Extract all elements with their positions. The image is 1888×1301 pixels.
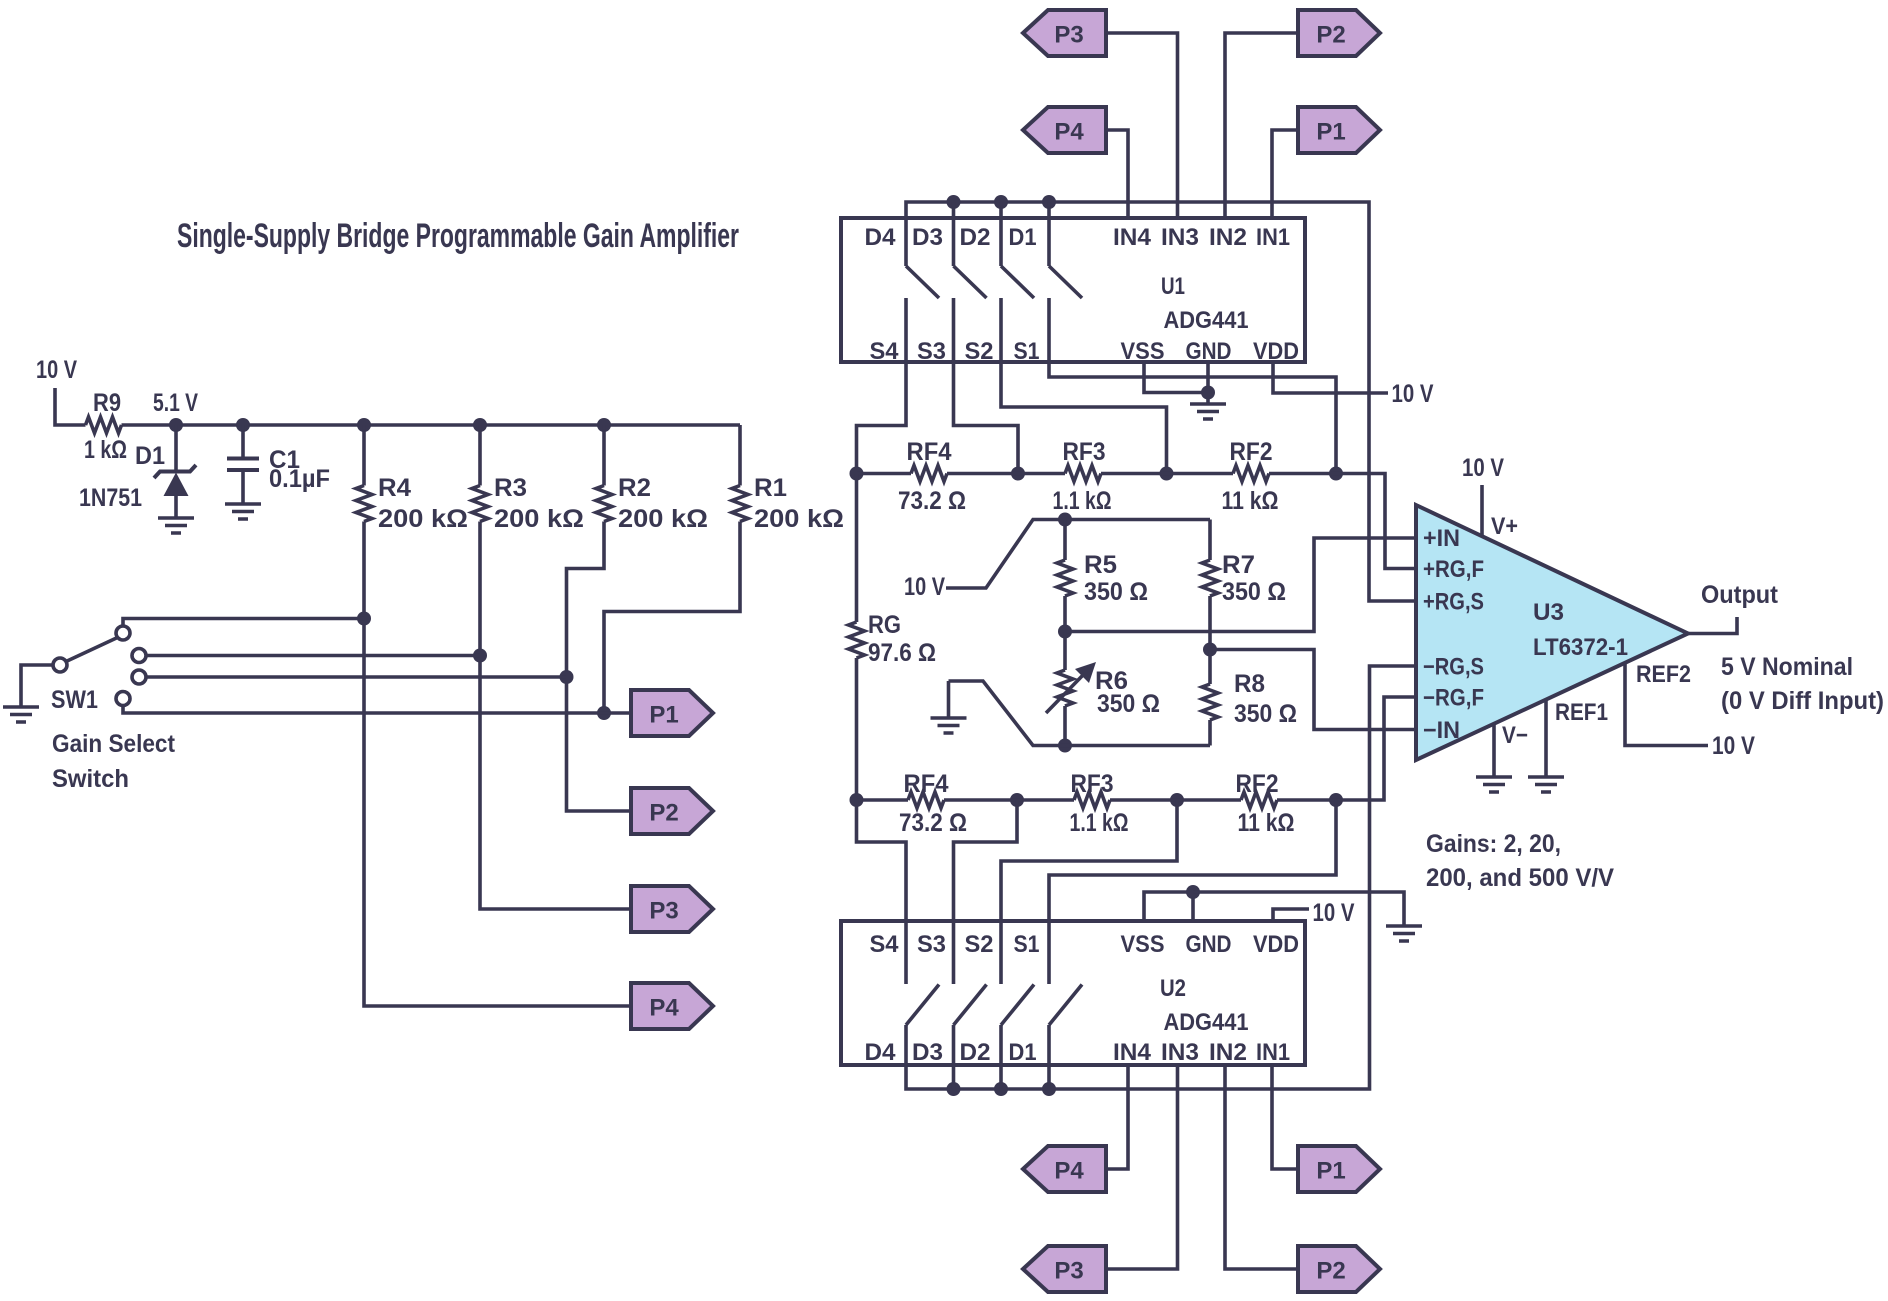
wire bridge -out to U3 -IN bbox=[1210, 650, 1416, 730]
svg-text:S2: S2 bbox=[965, 931, 994, 958]
svg-text:VDD: VDD bbox=[1253, 931, 1299, 958]
wire U2 VSS to GND node bbox=[1144, 892, 1193, 921]
resistor R6 variable bbox=[1057, 670, 1073, 706]
svg-text:V−: V− bbox=[1502, 722, 1528, 749]
svg-text:RG: RG bbox=[868, 611, 901, 639]
switch U1 S2-D2 arm bbox=[1001, 266, 1034, 298]
switch U2 S1-D1 arm bbox=[1049, 985, 1082, 1026]
svg-text:−RG,F: −RG,F bbox=[1423, 685, 1484, 712]
connector P4 (left) bbox=[631, 983, 713, 1029]
resistor R2 bbox=[596, 486, 612, 522]
junction D2 on rail bbox=[994, 195, 1008, 209]
svg-text:P4: P4 bbox=[649, 995, 679, 1022]
wire U3 REF2 to 10V bbox=[1625, 663, 1708, 746]
svg-text:200 kΩ: 200 kΩ bbox=[378, 505, 468, 533]
switch U2 S4-D4 arm bbox=[906, 985, 939, 1026]
switch U2 block ADG441 bbox=[841, 921, 1305, 1065]
wire U2 GND to ground bbox=[1193, 892, 1404, 925]
wire U2 S4 to RF4b left bbox=[857, 800, 907, 984]
wire U2 S1 to RF2b right node bbox=[1049, 800, 1336, 984]
svg-text:P4: P4 bbox=[1054, 119, 1084, 146]
svg-text:RF2: RF2 bbox=[1230, 438, 1273, 466]
svg-text:VSS: VSS bbox=[1121, 338, 1165, 365]
wire U2 D3 stub bbox=[952, 1025, 956, 1089]
wire U2 VDD to 10V bbox=[1273, 909, 1309, 921]
svg-text:R2: R2 bbox=[618, 474, 651, 502]
junction U2 D1 on rail bbox=[1042, 1082, 1056, 1096]
svg-text:1.1 kΩ: 1.1 kΩ bbox=[1070, 809, 1129, 837]
wire T3 to R2 line bbox=[146, 675, 567, 679]
resistor RG bbox=[849, 622, 865, 658]
svg-text:P1: P1 bbox=[1316, 119, 1345, 146]
junction bridge top / R5 bbox=[1058, 513, 1072, 527]
wire U1 S1 to RF2 right node bbox=[1049, 298, 1336, 474]
wire U2 D1 stub bbox=[1047, 1025, 1051, 1089]
wire RF2b right to -RG,F bbox=[1277, 697, 1416, 800]
wire bridge +out to U3 +IN bbox=[1065, 538, 1416, 632]
svg-text:P2: P2 bbox=[1316, 22, 1345, 49]
junction U2 D2 on rail bbox=[994, 1082, 1008, 1096]
wire U2 S3 to RF4b/RF3b node bbox=[954, 800, 1018, 984]
wire U3 output bbox=[1688, 617, 1737, 634]
resistor RF2 (top) bbox=[1233, 466, 1269, 482]
svg-text:P1: P1 bbox=[1316, 1158, 1345, 1185]
svg-text:REF1: REF1 bbox=[1555, 699, 1608, 726]
connector P4 (bottom) bbox=[1023, 1146, 1106, 1192]
wire U2 IN2 to P2 bbox=[1225, 1065, 1298, 1269]
wire U2 S2 to RF3b/RF2b node bbox=[1001, 800, 1177, 984]
wire RF4-RF3 segment bbox=[947, 472, 1065, 476]
svg-text:D1: D1 bbox=[135, 442, 165, 470]
wire R8 top segment bbox=[1208, 650, 1212, 685]
connector P1 (left) bbox=[631, 690, 713, 736]
capacitor C1 bbox=[227, 459, 259, 471]
diode D1 zener cathode bar bbox=[154, 465, 196, 478]
switch SW1 arm bbox=[66, 638, 118, 662]
svg-text:Switch: Switch bbox=[52, 765, 129, 793]
wire U1 VDD to 10V bbox=[1273, 362, 1388, 393]
switch U1 block ADG441 bbox=[841, 218, 1305, 362]
svg-text:97.6 Ω: 97.6 Ω bbox=[868, 639, 936, 667]
svg-text:SW1: SW1 bbox=[51, 686, 98, 714]
svg-text:ADG441: ADG441 bbox=[1164, 307, 1249, 334]
wire U1 D1 stub bbox=[1047, 202, 1051, 266]
wire RF4b-RF3b segment bbox=[944, 798, 1074, 802]
svg-text:V+: V+ bbox=[1491, 513, 1518, 540]
connector P3 (left) bbox=[631, 886, 713, 932]
svg-text:S1: S1 bbox=[1014, 338, 1040, 365]
wire U2 D-common rail to -RG,S bbox=[906, 666, 1416, 1089]
svg-text:(0 V Diff Input): (0 V Diff Input) bbox=[1721, 687, 1884, 715]
ground below U1 GND bbox=[1190, 404, 1226, 419]
junction bridge -out bbox=[1203, 643, 1217, 657]
svg-text:R7: R7 bbox=[1222, 551, 1255, 579]
wire 10V to bridge top node bbox=[946, 520, 1210, 589]
wire U3 V- to ground bbox=[1492, 724, 1496, 776]
svg-text:P2: P2 bbox=[1316, 1258, 1345, 1285]
wire bridge bottom rail bbox=[949, 681, 1211, 746]
svg-text:S4: S4 bbox=[870, 338, 900, 365]
connector P3 (bottom) bbox=[1023, 1246, 1106, 1292]
svg-text:R9: R9 bbox=[93, 389, 121, 417]
svg-text:S3: S3 bbox=[917, 338, 946, 365]
svg-text:350 Ω: 350 Ω bbox=[1084, 578, 1148, 606]
resistor R9 bbox=[86, 417, 122, 433]
svg-text:U2: U2 bbox=[1160, 975, 1186, 1002]
wire T1 to R4 line bbox=[123, 619, 364, 627]
connector P2 (top) bbox=[1298, 10, 1380, 56]
connector P1 (top) bbox=[1298, 107, 1380, 153]
wire R6 bottom segment bbox=[1063, 706, 1067, 746]
svg-text:IN3: IN3 bbox=[1161, 224, 1199, 251]
connector P4 (top) bbox=[1023, 107, 1106, 153]
wire rail to R2 bbox=[602, 425, 606, 486]
wire RF3b-RF2b segment bbox=[1110, 798, 1241, 802]
connector P2 (left) bbox=[631, 788, 713, 834]
wire rail to C1 bbox=[241, 425, 245, 458]
junction RF2 right / +RG,F bbox=[1329, 467, 1343, 481]
wire RF3-RF2 segment bbox=[1101, 472, 1233, 476]
switch U2 S3-D3 arm bbox=[954, 985, 987, 1026]
svg-text:D2: D2 bbox=[960, 224, 991, 251]
wire U2 IN3 to P3 bbox=[1106, 1065, 1178, 1269]
switch U1 S3-D3 arm bbox=[954, 266, 987, 298]
svg-text:D3: D3 bbox=[912, 224, 943, 251]
svg-text:VSS: VSS bbox=[1121, 931, 1165, 958]
resistor R4 bbox=[356, 486, 372, 522]
switch SW1 pole contact bbox=[53, 658, 67, 672]
junction D3 on rail bbox=[947, 195, 961, 209]
wire U1 S4 to RF4 left bbox=[857, 298, 907, 474]
ground at U3 REF1 bbox=[1528, 777, 1564, 792]
ground below C1 bbox=[225, 504, 261, 519]
connector P2 (bottom) bbox=[1298, 1246, 1380, 1292]
wire SW1 pole to ground bbox=[21, 665, 53, 706]
wire U1 D3 stub bbox=[952, 202, 956, 266]
svg-text:R1: R1 bbox=[754, 474, 787, 502]
junction RF4 left / RG top bbox=[850, 467, 864, 481]
svg-text:S4: S4 bbox=[870, 931, 900, 958]
svg-text:1N751: 1N751 bbox=[79, 484, 142, 512]
svg-text:IN2: IN2 bbox=[1209, 1039, 1247, 1066]
wire bridge ground stub bbox=[947, 681, 951, 717]
wire T4 to P1 flag bbox=[123, 706, 631, 714]
svg-text:S2: S2 bbox=[965, 338, 994, 365]
resistor R8 bbox=[1202, 684, 1218, 720]
wire R3 to P3 flag bbox=[480, 522, 631, 910]
wire rail to R3 bbox=[478, 425, 482, 486]
ground for U2 GND bbox=[1386, 926, 1422, 941]
wire R1 jog to P1 row bbox=[604, 522, 740, 714]
svg-text:P1: P1 bbox=[649, 702, 678, 729]
svg-text:+RG,F: +RG,F bbox=[1423, 556, 1484, 583]
wire R5 top segment bbox=[1063, 520, 1067, 561]
junction RF4b left / RG bottom bbox=[850, 793, 864, 807]
ground below D1 bbox=[158, 518, 194, 533]
junction RF3/RF2 top bbox=[1160, 467, 1174, 481]
svg-text:+IN: +IN bbox=[1423, 525, 1460, 552]
wire R7 top segment bbox=[1208, 520, 1212, 561]
svg-text:S1: S1 bbox=[1014, 931, 1040, 958]
svg-text:P4: P4 bbox=[1054, 1158, 1084, 1185]
junction RF4b/RF3b bbox=[1010, 793, 1024, 807]
junction node at R2 bbox=[597, 418, 611, 432]
wire U2 D2 stub bbox=[999, 1025, 1003, 1089]
svg-text:200 kΩ: 200 kΩ bbox=[494, 505, 584, 533]
svg-text:D3: D3 bbox=[912, 1039, 943, 1066]
junction U2 VSS/GND bbox=[1186, 885, 1200, 899]
svg-text:Output: Output bbox=[1701, 581, 1779, 609]
wire U2 IN4 to P4 bbox=[1106, 1065, 1128, 1169]
svg-text:Single-Supply Bridge Programma: Single-Supply Bridge Programmable Gain A… bbox=[177, 217, 739, 255]
wire U2 IN1 to P1 bbox=[1272, 1065, 1298, 1169]
svg-text:Gains: 2, 20,: Gains: 2, 20, bbox=[1426, 830, 1561, 858]
svg-text:10 V: 10 V bbox=[904, 573, 945, 601]
svg-text:IN4: IN4 bbox=[1113, 1039, 1152, 1066]
resistor RF3 (bottom) bbox=[1074, 792, 1110, 808]
svg-text:S3: S3 bbox=[917, 931, 946, 958]
resistor RF4 (bottom) bbox=[908, 792, 944, 808]
svg-text:D1: D1 bbox=[1009, 1039, 1037, 1066]
wire R5 bottom segment bbox=[1063, 596, 1067, 632]
svg-text:GND: GND bbox=[1186, 338, 1232, 365]
ground at SW1 pole bbox=[3, 707, 39, 722]
svg-text:11 kΩ: 11 kΩ bbox=[1238, 809, 1295, 837]
junction RF4/RF3 top bbox=[1011, 467, 1025, 481]
connector P3 (top) bbox=[1023, 10, 1106, 56]
svg-text:GND: GND bbox=[1186, 931, 1232, 958]
svg-text:RF2: RF2 bbox=[1236, 770, 1279, 798]
resistor R7 bbox=[1202, 560, 1218, 596]
svg-text:RF4: RF4 bbox=[904, 770, 949, 798]
diode D1 zener triangle bbox=[164, 473, 189, 497]
svg-text:P2: P2 bbox=[649, 800, 678, 827]
svg-text:RF4: RF4 bbox=[907, 438, 952, 466]
svg-text:U1: U1 bbox=[1161, 273, 1185, 300]
wire R8 bottom segment bbox=[1208, 720, 1212, 746]
svg-text:R3: R3 bbox=[494, 474, 527, 502]
svg-text:IN2: IN2 bbox=[1209, 224, 1247, 251]
wire U1 GND stub bbox=[1206, 362, 1210, 404]
resistor R3 bbox=[472, 486, 488, 522]
resistor R5 bbox=[1057, 560, 1073, 596]
wire P1 to U1 IN1 bbox=[1272, 130, 1298, 218]
svg-text:R8: R8 bbox=[1234, 670, 1265, 698]
svg-text:D1: D1 bbox=[1009, 224, 1037, 251]
wire RF2 right to +RG,F bbox=[1269, 474, 1416, 569]
svg-text:P3: P3 bbox=[649, 898, 678, 925]
wire RF4 left segment bbox=[857, 472, 912, 476]
junction node at C1 bbox=[236, 418, 250, 432]
svg-text:350 Ω: 350 Ω bbox=[1097, 690, 1160, 718]
svg-text:−IN: −IN bbox=[1423, 717, 1460, 744]
arrow of variable resistor R6 bbox=[1046, 674, 1084, 713]
wire P4 to U1 IN4 bbox=[1106, 130, 1128, 218]
resistor RF4 (top) bbox=[911, 466, 947, 482]
svg-text:5.1 V: 5.1 V bbox=[153, 389, 198, 417]
junction node at D1 bbox=[169, 418, 183, 432]
svg-text:1.1 kΩ: 1.1 kΩ bbox=[1053, 487, 1112, 515]
wire RG bottom segment bbox=[855, 658, 859, 800]
svg-text:IN1: IN1 bbox=[1256, 1039, 1290, 1066]
svg-text:LT6372-1: LT6372-1 bbox=[1533, 634, 1628, 661]
switch SW1 throw T3 bbox=[132, 670, 146, 684]
svg-text:−RG,S: −RG,S bbox=[1423, 654, 1484, 681]
connector P1 (bottom) bbox=[1298, 1146, 1380, 1192]
svg-text:U3: U3 bbox=[1533, 599, 1564, 626]
junction R3 / SW1-T2 bbox=[473, 649, 487, 663]
wire rail to D1 bbox=[174, 425, 178, 472]
junction U2 D3 on rail bbox=[947, 1082, 961, 1096]
junction R4 / SW1-T1 bbox=[357, 612, 371, 626]
switch SW1 throw T1 bbox=[116, 626, 130, 640]
svg-text:+RG,S: +RG,S bbox=[1423, 589, 1484, 616]
junction D1 on rail bbox=[1042, 195, 1056, 209]
svg-text:200, and 500 V/V: 200, and 500 V/V bbox=[1426, 864, 1614, 892]
op-amp U3 LT6372-1 triangle bbox=[1416, 505, 1688, 760]
switch U1 S4-D4 arm bbox=[906, 266, 939, 298]
svg-text:R5: R5 bbox=[1084, 551, 1117, 579]
wire R2 jog to P2 flag bbox=[567, 522, 632, 812]
wire U1 VSS to GND node bbox=[1144, 362, 1208, 393]
junction RF3b/RF2b bbox=[1170, 793, 1184, 807]
svg-text:1 kΩ: 1 kΩ bbox=[84, 436, 127, 464]
wire RG top segment bbox=[855, 474, 859, 623]
svg-text:RF3: RF3 bbox=[1071, 770, 1114, 798]
svg-text:11 kΩ: 11 kΩ bbox=[1222, 487, 1279, 515]
wire 10V supply to rail bbox=[55, 388, 86, 425]
switch SW1 throw T2 bbox=[132, 649, 146, 663]
svg-text:10 V: 10 V bbox=[36, 356, 77, 384]
svg-text:D4: D4 bbox=[865, 224, 897, 251]
wire D1 anode to ground bbox=[174, 495, 178, 517]
wire T2 to R3 line bbox=[146, 654, 480, 658]
junction bridge +out bbox=[1058, 625, 1072, 639]
junction R2 / SW1-T3 bbox=[560, 670, 574, 684]
svg-text:200 kΩ: 200 kΩ bbox=[618, 505, 708, 533]
wire R6 top segment bbox=[1063, 632, 1067, 671]
svg-text:350 Ω: 350 Ω bbox=[1222, 578, 1286, 606]
junction RF2b right / -RG,F bbox=[1329, 793, 1343, 807]
svg-text:VDD: VDD bbox=[1253, 338, 1299, 365]
junction bridge bottom node bbox=[1058, 739, 1072, 753]
switch U1 S1-D1 arm bbox=[1049, 266, 1082, 298]
switch U2 S2-D2 arm bbox=[1001, 985, 1034, 1026]
wire U1 S2 to RF3/RF2 node bbox=[1001, 298, 1167, 474]
wire P2 to U1 IN2 bbox=[1225, 33, 1298, 218]
svg-text:D2: D2 bbox=[960, 1039, 991, 1066]
svg-text:10 V: 10 V bbox=[1712, 732, 1755, 760]
ground at U3 V- bbox=[1476, 777, 1512, 792]
svg-text:10 V: 10 V bbox=[1392, 380, 1434, 408]
svg-text:P3: P3 bbox=[1054, 22, 1083, 49]
switch SW1 throw T4 bbox=[116, 692, 130, 706]
wire rail to R4 bbox=[362, 425, 366, 486]
resistor RF2 (bottom) bbox=[1241, 792, 1277, 808]
ground at bridge bbox=[931, 718, 967, 733]
junction U1 VSS/GND bbox=[1201, 386, 1215, 400]
junction node at R4 bbox=[357, 418, 371, 432]
wire U1 D-common rail to +RG,S bbox=[906, 202, 1416, 601]
svg-text:ADG441: ADG441 bbox=[1164, 1009, 1249, 1036]
svg-text:73.2 Ω: 73.2 Ω bbox=[899, 809, 967, 837]
wire R7 bottom segment bbox=[1208, 596, 1212, 650]
svg-text:IN4: IN4 bbox=[1113, 224, 1152, 251]
resistor R1 bbox=[732, 486, 748, 522]
wire U3 V+ supply bbox=[1480, 485, 1484, 536]
wire C1 to ground bbox=[241, 472, 245, 503]
svg-text:R4: R4 bbox=[378, 474, 411, 502]
wire U1 D2 stub bbox=[999, 202, 1003, 266]
junction node at R3 bbox=[473, 418, 487, 432]
svg-text:D4: D4 bbox=[865, 1039, 897, 1066]
svg-text:IN1: IN1 bbox=[1256, 224, 1290, 251]
wire R4 to P4 flag bbox=[364, 522, 631, 1007]
svg-text:REF2: REF2 bbox=[1636, 661, 1691, 688]
svg-text:350 Ω: 350 Ω bbox=[1234, 700, 1297, 728]
svg-text:5 V Nominal: 5 V Nominal bbox=[1721, 653, 1853, 681]
wire U3 REF1 to ground bbox=[1544, 700, 1548, 776]
svg-text:P3: P3 bbox=[1054, 1258, 1083, 1285]
svg-text:0.1µF: 0.1µF bbox=[269, 465, 330, 493]
junction R1 / SW1-T4 / P1 bbox=[597, 706, 611, 720]
svg-text:RF3: RF3 bbox=[1063, 438, 1106, 466]
wire U1 S3 to RF4/RF3 node bbox=[954, 298, 1019, 474]
wire 5.1V rail bbox=[122, 423, 741, 427]
wire RF4b left segment bbox=[857, 798, 909, 802]
wire P3 to U1 IN3 bbox=[1106, 33, 1178, 218]
svg-text:10 V: 10 V bbox=[1313, 899, 1355, 927]
wire rail corner to R1 bbox=[738, 425, 742, 486]
svg-text:200 kΩ: 200 kΩ bbox=[754, 505, 844, 533]
svg-text:73.2 Ω: 73.2 Ω bbox=[898, 487, 966, 515]
resistor RF3 (top) bbox=[1065, 466, 1101, 482]
svg-text:IN3: IN3 bbox=[1161, 1039, 1199, 1066]
wire U2 GND stub bbox=[1191, 892, 1195, 921]
svg-text:Gain Select: Gain Select bbox=[52, 730, 176, 758]
svg-text:10 V: 10 V bbox=[1462, 454, 1504, 482]
